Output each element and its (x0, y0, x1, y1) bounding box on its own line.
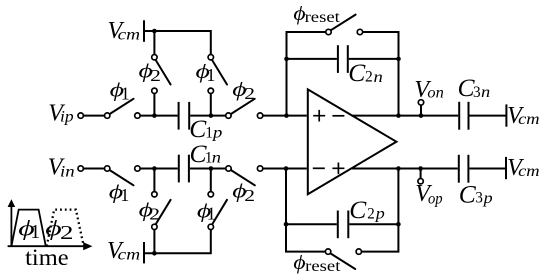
wire phi2 switch to opamp input - (263, 168, 307, 170)
node top row / phi2 column (152, 113, 157, 118)
svg-text:p: p (375, 206, 385, 223)
svg-text:reset: reset (305, 258, 341, 275)
svg-text:ϕ: ϕ (293, 252, 306, 274)
switch phi1 blade (Vip row) (110, 99, 134, 114)
switch phi2 blade (bottom row after C1n) (231, 170, 255, 185)
node Vcm top (152, 29, 157, 34)
node Vcm bottom (152, 251, 157, 256)
svg-text:p: p (483, 190, 493, 207)
label phi-reset (top) (293, 3, 340, 26)
wire feedback-p right segment (361, 169, 398, 252)
svg-text:in: in (60, 163, 75, 180)
wire phi2 switch to top row (153, 94, 155, 116)
label Vin (48, 155, 75, 181)
node opamp input p (284, 166, 289, 171)
wire switch to C1n (140, 168, 178, 170)
switch phi-reset contacts (top) (326, 29, 331, 34)
label Vcm bottom-left (107, 238, 140, 264)
svg-text:2: 2 (365, 69, 373, 86)
switch phi1 contacts (Vin row) (105, 166, 110, 171)
terminal Vip (78, 113, 83, 118)
node C2p left (284, 222, 289, 227)
switch phi-reset blade (bottom) (331, 253, 356, 269)
svg-text:C: C (348, 58, 366, 87)
capacitor C1p plates (178, 102, 180, 130)
label Von (414, 77, 444, 103)
svg-text:3: 3 (475, 190, 483, 207)
svg-text:op: op (428, 190, 443, 207)
svg-text:2: 2 (367, 205, 375, 222)
capacitor C2n plates (337, 45, 339, 73)
svg-text:C: C (459, 179, 477, 208)
wire C3n to Vcm bar (470, 115, 506, 117)
label Vcm right-bottom (507, 155, 539, 181)
wire opamp output p to C3p (352, 168, 458, 170)
label C3n (458, 73, 491, 102)
node C2n left (284, 57, 289, 62)
wire Vcm-top to phi2 switch (153, 31, 155, 54)
label Vcm top-left (108, 18, 141, 44)
switch/terminal open circles (78, 29, 424, 254)
op-amp input/output polarity marks (313, 110, 345, 174)
wire bottom row to phi1 switch (210, 169, 212, 192)
minus (input p) (313, 167, 325, 169)
wire feedback-n right segment (363, 32, 399, 116)
node top row / phi1 column (209, 113, 214, 118)
label C2p (349, 195, 385, 224)
label C1n (190, 139, 222, 168)
wire phi1 switch to top row (210, 94, 212, 116)
label phi1 (top-right vertical switch) (196, 61, 216, 85)
time axis arrowhead right (83, 242, 92, 250)
svg-text:2: 2 (149, 205, 160, 224)
label phi1 (Vin row switch) (109, 182, 130, 206)
svg-text:cm: cm (118, 246, 141, 263)
time axis horizontal (8, 245, 87, 247)
node bottom row / phi1 column (209, 166, 214, 171)
label C1p (189, 114, 222, 143)
svg-text:1: 1 (30, 221, 40, 243)
label phi2 (bottom row switch) (232, 181, 255, 205)
switch phi2 blade (top row after C1p) (231, 99, 255, 114)
wire Vcm-top rail to phi1 switch (144, 31, 211, 54)
wire Von stub (420, 105, 422, 116)
svg-text:reset: reset (305, 9, 341, 26)
label phi2 (top-left vertical switch) (139, 61, 161, 86)
switch phi1 contacts (Vip row) (105, 113, 110, 118)
terminal Vop (418, 179, 423, 184)
svg-text:on: on (427, 85, 444, 102)
waveform phi1 (solid trapezoid) (11, 210, 45, 247)
node C2n right (396, 57, 401, 62)
node Vop tap (418, 166, 423, 171)
svg-text:2: 2 (244, 84, 255, 103)
wire phi2 switch to opamp input + (263, 115, 307, 117)
node output n / feedback (396, 113, 401, 118)
plus (input n) (313, 110, 325, 122)
svg-text:2: 2 (244, 186, 255, 205)
wire Vin to switch (84, 168, 105, 170)
label Vip (48, 100, 74, 126)
wire Vip to switch (84, 115, 105, 117)
switch phi2 contacts (bottom-left vertical) (152, 192, 157, 197)
svg-text:1: 1 (207, 204, 216, 224)
wire C2n right (349, 58, 399, 60)
label Vop (415, 181, 443, 207)
wire C2n left (287, 58, 337, 60)
switch phi1 contacts (bottom-right vertical) (208, 192, 213, 197)
svg-text:1: 1 (206, 65, 215, 85)
switch phi1 contacts (top-right vertical) (208, 55, 213, 60)
svg-text:n: n (481, 84, 490, 101)
terminal Von (418, 100, 423, 105)
wire C2p right (349, 223, 398, 225)
wire bottom row to phi2 switch (153, 169, 155, 192)
svg-text:1: 1 (121, 83, 130, 103)
label Vcm right-top (507, 103, 539, 129)
svg-text:2: 2 (150, 66, 161, 85)
node C2p right (396, 222, 401, 227)
time axis vertical (10, 204, 12, 246)
label phi2 (bottom-left vertical switch) (139, 199, 160, 223)
node output p / feedback (396, 166, 401, 171)
terminal Vcm bottom-left bar (143, 242, 145, 263)
label phi1 (bottom-right vertical switch) (197, 200, 216, 223)
label phi1 (Vip row switch) (110, 79, 130, 103)
label C2n (348, 58, 383, 87)
wire feedback-n left rail (287, 32, 326, 116)
terminal Vcm top-left bar (143, 20, 145, 42)
switch phi2 contacts (top row) (226, 113, 231, 118)
svg-text:cm: cm (518, 163, 540, 180)
switch phi2 contacts (top-left vertical) (152, 55, 157, 60)
switch phi1 blade (bottom-right vertical) (212, 200, 227, 224)
wire C3p to Vcm bar (469, 168, 505, 170)
svg-text:time: time (25, 245, 69, 271)
capacitor C2p plates (337, 211, 339, 239)
wire switch to C1p (140, 115, 177, 117)
svg-text:p: p (212, 125, 223, 142)
plus (output p) (332, 163, 344, 175)
timing diagram (8, 204, 87, 246)
capacitor C3p plates (458, 155, 460, 183)
capacitor C3n plates (458, 102, 460, 130)
svg-text:ip: ip (60, 109, 74, 126)
switch phi1 blade (Vin row) (110, 170, 134, 185)
label phi-reset (bottom) (293, 252, 341, 275)
terminal Vcm right-bottom bar (505, 157, 507, 179)
wire opamp output n to C3n (352, 115, 459, 117)
terminal Vin (78, 166, 83, 171)
svg-text:n: n (212, 149, 221, 166)
switch phi1 blade (top-right vertical) (212, 60, 227, 84)
minus (output n) (332, 115, 344, 117)
wire feedback-p left rail (286, 169, 325, 252)
wire Vop stub (420, 169, 422, 180)
svg-text:n: n (374, 69, 384, 86)
svg-text:1: 1 (120, 185, 129, 205)
capacitor C1n plates (178, 155, 180, 183)
label C3p (459, 179, 493, 208)
node opamp input n (284, 113, 289, 118)
svg-text:3: 3 (473, 84, 481, 101)
svg-text:cm: cm (118, 26, 141, 43)
switch phi-reset contacts (bottom) (325, 249, 330, 254)
label phi2 (timing) (45, 215, 73, 244)
label phi1 (timing) (18, 215, 40, 243)
op-amp triangle (308, 89, 397, 194)
waveform phi2 (dotted trapezoid) (47, 210, 84, 247)
label phi2 (top row switch) (232, 79, 255, 103)
switch phi-reset blade (top) (331, 15, 356, 31)
svg-text:2: 2 (60, 222, 74, 244)
node Von tap (419, 113, 424, 118)
wire C1p to phi2 switch (190, 115, 225, 117)
wire phi2 switch to Vcm-bottom (153, 230, 155, 254)
wire C2p left (286, 223, 337, 225)
switch phi2 blade (bottom-left vertical) (156, 200, 171, 224)
wire C1n to phi2 switch (190, 168, 226, 170)
svg-text:C: C (349, 195, 367, 224)
switch phi2 contacts (bottom row) (226, 166, 231, 171)
node bottom row / phi2 column (152, 166, 157, 171)
terminal Vcm right-top bar (505, 104, 507, 126)
time axis arrowhead up (8, 199, 16, 207)
wire phi1 switch to Vcm-bottom rail (144, 230, 211, 254)
switch phi2 blade (top-left vertical) (156, 60, 171, 84)
svg-text:cm: cm (518, 111, 540, 128)
switch blades (110, 15, 356, 269)
